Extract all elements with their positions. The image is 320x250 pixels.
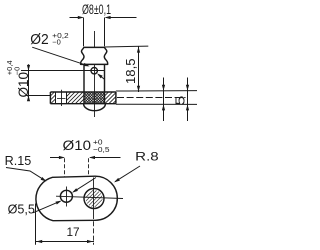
R.15 arrowhead [41,177,47,182]
svg-text:17: 17 [66,225,79,239]
Ø8 extension line right [104,18,106,47]
Ø10 left dimension line [28,64,30,100]
Ø10 dim line right tail [90,157,120,159]
plate bottom edge [50,103,116,105]
svg-text:5: 5 [173,96,188,106]
plate right end face [115,92,117,104]
18,5 dimension line [138,46,140,92]
5 dim B top arrowhead [186,85,189,91]
pin shank right edge [104,64,106,103]
Ø2 leader arrowhead upper-left [83,63,89,67]
svg-text:−0,5: −0,5 [93,145,110,154]
plate bottom edge extension right [116,103,197,105]
Ø2 leader tail lower-right [99,75,105,80]
Ø5,5 arrowhead upper-right [72,188,78,193]
big hole vertical centerline [93,178,95,215]
Ø8 dimension line right tail [106,17,137,19]
svg-text:Ø2: Ø2 [30,31,49,48]
svg-text:Ø5,5: Ø5,5 [8,203,35,217]
svg-text:−0: −0 [12,67,21,76]
svg-text:Ø10: Ø10 [63,138,92,153]
Ø10 dim dashed extension left [64,158,66,177]
5 dimension vertical line B [187,78,189,122]
pin head outline (front view) [81,47,108,64]
Ø5,5 leader upper tail [74,178,97,192]
18,5 top arrowhead [137,47,140,53]
plate hatching right of pin [93,92,137,104]
svg-text:Ø8±0,1: Ø8±0,1 [82,2,111,17]
R.8 arrowhead [114,178,120,183]
17 left arrowhead [36,240,42,243]
17 extension line left [35,204,37,245]
Ø5,5 leader lower segment [33,201,60,213]
small hole vertical centerline [66,187,68,207]
plate hatching far left [39,92,79,104]
pin axis centerline (vertical) [94,31,96,117]
Ø5,5 arrowhead lower-left [56,201,62,205]
clinched dome end of pin below plate [84,104,106,111]
Ø8 dimension line left tail [70,17,83,19]
Ø10 left top arrowhead [27,65,30,71]
5 dim B bottom arrowhead [186,104,189,110]
plate top edge [50,91,116,93]
Ø5,5 hole centerline in plate [61,90,63,106]
R.15 leader [6,168,45,181]
svg-text:R.15: R.15 [5,154,32,168]
plate hatching left of pin [55,92,107,104]
Ø5,5 hole left edge in plate section [55,92,57,104]
Ø5,5 hole right edge in plate section [66,92,68,104]
Ø10 dim right arrowhead [89,156,95,159]
Ø10 dim dashed extension right [88,158,90,177]
Ø8 extension line left [83,18,85,47]
hole Ø10 with pin section hatching (bottom view) [84,189,104,209]
Ø10 dim left arrowhead [59,156,65,159]
pin section hatching / [72,92,127,104]
17 right arrowhead [87,240,93,243]
Ø2 leader line [32,47,88,66]
17 dimension line [35,241,94,243]
5 dimension vertical line A [163,78,165,122]
Ø8 right arrowhead [105,16,111,19]
Ø10 left bottom extension line [26,95,51,97]
cross-hole horizontal centerline [21,70,105,72]
R.8 leader [115,166,140,182]
Ø2 leader arrowhead lower-right [97,73,103,78]
5 dim A bottom arrowhead [162,104,165,110]
svg-text:R.8: R.8 [135,150,159,164]
plate left end face [49,92,51,104]
plate mid dashed centerline right [117,97,186,99]
18,5 bottom arrowhead [137,86,140,92]
cross-hole Ø2 circle [91,68,97,74]
plate top edge extension right [116,90,197,92]
svg-text:−0: −0 [52,38,61,47]
5 dim A top arrowhead [162,85,165,91]
hole Ø5,5 (bottom view) [60,190,72,202]
pin shank left edge [83,64,85,103]
Ø10 left bottom arrowhead [27,95,30,101]
Ø8 left arrowhead [78,16,84,19]
pin section hatching \ [72,92,127,104]
plate outline (bottom view) [36,176,117,221]
horizontal centerline through holes (bottom view) [56,196,123,198]
Ø5,5 hole horizontal center dash in plate [57,98,66,100]
17 extension line right (dashed from hole centerline) [93,214,95,245]
18,5 top extension line from head corner [105,45,149,48]
Ø10 dim line left tail [50,157,64,159]
svg-text:18,5: 18,5 [123,59,138,85]
